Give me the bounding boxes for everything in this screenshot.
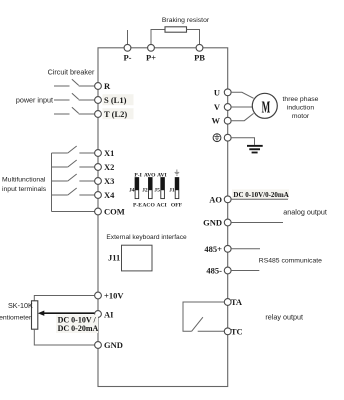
label Multifunctional input terminals <box>2 177 47 193</box>
terminal U <box>214 87 231 97</box>
wire PE to ground <box>231 138 254 145</box>
terminal 485+ <box>204 244 231 254</box>
label analog output <box>283 207 327 216</box>
svg-text:DC 0-10V /: DC 0-10V / <box>58 315 97 324</box>
wire braking resistor right leg to PB <box>187 30 200 45</box>
label Braking resistor <box>162 17 210 24</box>
switch X4 <box>52 188 95 195</box>
label DC 0-10V / DC 0-20mA <box>56 315 98 334</box>
svg-text:COM: COM <box>104 207 125 217</box>
svg-text:DC 0-10V/0-20mA: DC 0-10V/0-20mA <box>233 191 288 199</box>
wire 485+ out <box>231 248 260 250</box>
svg-text:input terminals: input terminals <box>2 186 47 193</box>
label External keyboard interface <box>106 234 187 241</box>
svg-text:W: W <box>212 116 221 126</box>
wire +10V to potentiometer <box>34 296 94 301</box>
wire relay TA leg <box>183 302 224 331</box>
svg-text:GND: GND <box>104 340 123 350</box>
svg-text:J5: J5 <box>154 187 160 193</box>
label Circuit breaker <box>48 67 95 76</box>
svg-text:induction: induction <box>287 105 314 112</box>
wire COM lead <box>52 211 95 213</box>
wire GND out <box>231 222 283 224</box>
svg-text:TC: TC <box>231 326 243 336</box>
svg-text:+10V: +10V <box>104 291 124 301</box>
label three phase induction motor <box>283 96 319 120</box>
svg-text:T (L2): T (L2) <box>104 109 127 119</box>
jumper J2 <box>142 172 156 208</box>
wiper arrow to AI <box>38 311 95 316</box>
svg-text:analog output: analog output <box>283 207 327 216</box>
terminal TC <box>224 326 242 336</box>
svg-text:relay output: relay output <box>265 313 303 322</box>
switch X3 <box>52 174 95 181</box>
inverter body outline <box>98 48 228 387</box>
terminal AO with DC label <box>209 190 289 205</box>
terminal X1 <box>95 148 115 158</box>
svg-text:485-: 485- <box>206 266 222 276</box>
svg-text:J4: J4 <box>129 187 135 193</box>
terminal GND analog <box>203 218 231 228</box>
svg-text:V: V <box>214 102 221 112</box>
svg-text:OFF: OFF <box>171 202 183 208</box>
terminal COM <box>95 207 125 217</box>
protective earth symbol <box>213 134 221 142</box>
wire AO out <box>231 198 288 200</box>
relay contact blade <box>192 317 203 331</box>
terminal PB <box>194 44 205 62</box>
label relay output <box>265 313 303 322</box>
label power input <box>16 96 53 105</box>
breaker pole T <box>54 107 95 114</box>
svg-text:J11: J11 <box>108 253 120 263</box>
potentiometer SK-10K <box>32 301 38 329</box>
wire braking resistor left leg from P+ <box>151 30 165 45</box>
terminal V <box>214 102 231 112</box>
wire input common bus <box>51 153 53 212</box>
terminal X3 <box>95 176 115 186</box>
svg-text:power input: power input <box>16 96 53 105</box>
terminal P- <box>123 44 131 62</box>
breaker pole S <box>54 93 95 100</box>
svg-text:Multifunctional: Multifunctional <box>2 177 46 184</box>
svg-text:potentiometer: potentiometer <box>0 315 32 322</box>
terminal W <box>212 116 232 126</box>
terminal +10V <box>95 291 125 301</box>
wire U to motor <box>231 92 254 98</box>
svg-text:Braking resistor: Braking resistor <box>162 17 210 24</box>
svg-text:AO: AO <box>209 194 222 204</box>
svg-text:P-: P- <box>123 53 131 63</box>
terminal X4 <box>95 190 116 200</box>
svg-text:M: M <box>262 97 271 116</box>
svg-text:J1: J1 <box>169 187 175 193</box>
wire relay TC leg <box>198 330 225 332</box>
wire potentiometer bottom to GND <box>34 329 94 345</box>
svg-text:R: R <box>104 81 111 91</box>
terminal PE <box>224 134 231 141</box>
terminal X2 <box>95 162 115 172</box>
svg-text:U: U <box>214 87 220 97</box>
label RS485 communicate <box>259 258 322 265</box>
svg-text:Circuit breaker: Circuit breaker <box>48 67 95 76</box>
svg-text:ACI: ACI <box>156 202 166 208</box>
jumper J1 with ground icon <box>169 170 183 209</box>
svg-text:SK-10K: SK-10K <box>8 301 33 310</box>
label SK-10K potentiometer <box>0 301 33 322</box>
svg-text:GND: GND <box>203 218 222 228</box>
wire 485- out <box>231 270 259 272</box>
resistor braking resistor <box>165 27 187 32</box>
connector J11 <box>108 245 152 271</box>
svg-text:X4: X4 <box>104 190 115 200</box>
svg-text:485+: 485+ <box>204 244 222 254</box>
svg-text:P-E: P-E <box>133 202 142 208</box>
wire W to motor <box>231 113 254 120</box>
switch X1 <box>52 146 95 153</box>
terminal T (L2) <box>95 108 134 119</box>
terminal S (L1) <box>95 94 134 105</box>
wire stub above P- <box>127 30 129 44</box>
switch X2 <box>52 160 95 167</box>
terminal P+ <box>146 44 156 62</box>
terminal R <box>95 81 111 91</box>
svg-text:PB: PB <box>194 53 205 63</box>
svg-text:AI: AI <box>104 309 114 319</box>
svg-text:three phase: three phase <box>283 96 319 103</box>
svg-text:ACO: ACO <box>142 202 155 208</box>
terminal AI <box>95 309 115 319</box>
terminal TA <box>224 297 243 307</box>
svg-text:TA: TA <box>231 297 243 307</box>
svg-text:X2: X2 <box>104 162 114 172</box>
svg-text:J2: J2 <box>142 187 148 193</box>
jumper J4 <box>129 172 142 208</box>
terminal 485- <box>206 266 231 276</box>
jumper J5 <box>154 172 166 208</box>
terminal GND bottom <box>95 340 123 350</box>
svg-text:DC 0-20mA: DC 0-20mA <box>58 324 99 333</box>
svg-text:X3: X3 <box>104 176 114 186</box>
svg-text:motor: motor <box>292 113 310 120</box>
ground symbol <box>247 145 263 154</box>
motor M <box>252 93 277 118</box>
svg-text:X1: X1 <box>104 148 114 158</box>
svg-text:S (L1): S (L1) <box>104 95 127 105</box>
svg-text:External keyboard interface: External keyboard interface <box>106 234 187 241</box>
breaker pole R <box>54 79 95 86</box>
svg-text:RS485 communicate: RS485 communicate <box>259 258 322 265</box>
wire V to motor <box>231 106 252 108</box>
svg-text:P+: P+ <box>146 53 156 63</box>
